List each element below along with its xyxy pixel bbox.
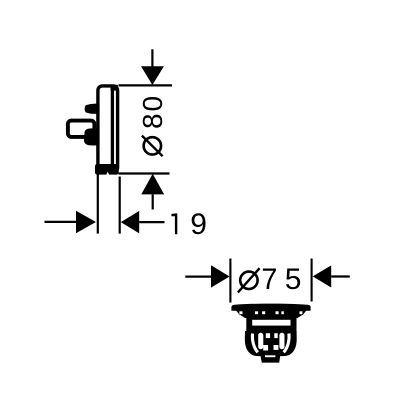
- upper nub on plate: [85, 104, 98, 114]
- drain strainer: basket white openings: [252, 333, 289, 353]
- dimension 19: right arrow: [121, 211, 165, 234]
- dimension 19: right extension line: [119, 177, 121, 234]
- svg-text:80: 80: [137, 94, 168, 129]
- drain strainer: basket bowl: [245, 331, 297, 356]
- lower nub / lever hub: [84, 128, 98, 146]
- drain strainer: foot: [260, 353, 281, 363]
- dimension Ø75: left arrow: [185, 265, 229, 287]
- dimension 19: left arrow: [45, 211, 96, 233]
- drain strainer: flange layer 1: [236, 311, 306, 315]
- escutcheon plate side view: [95, 85, 119, 175]
- lever handle: [68, 121, 95, 137]
- drain strainer: neck with slot: [246, 318, 296, 332]
- dimension 19: left extension line: [97, 175, 99, 234]
- drain strainer: flange layer 2: [240, 315, 304, 319]
- svg-text:9: 9: [190, 208, 207, 241]
- dimension Ø75: right extension line: [311, 259, 313, 302]
- dimension Ø75: label text: [238, 263, 302, 296]
- svg-text:7: 7: [261, 263, 277, 296]
- dimension Ø75: right arrow: [313, 265, 350, 287]
- svg-text:5: 5: [285, 263, 302, 296]
- dimension 19: label text: [171, 208, 206, 241]
- dimension Ø80: bottom extension line: [119, 172, 170, 174]
- dimension Ø80: bottom arrow: [141, 174, 164, 210]
- drain strainer: cap top bar: [231, 304, 310, 311]
- dimension Ø80: top arrow: [141, 49, 164, 85]
- drain strainer: flange white dots: [239, 311, 302, 314]
- dimension Ø80: label text (rotated): [137, 94, 168, 156]
- dimension Ø75: left extension line: [229, 259, 231, 303]
- dimension Ø80: top extension line: [119, 84, 173, 86]
